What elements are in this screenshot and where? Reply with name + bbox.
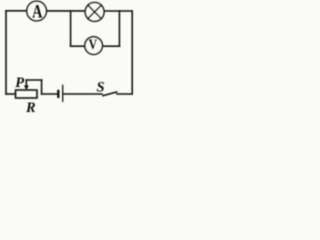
svg-text:R: R	[25, 100, 36, 116]
lamp X1 circle	[85, 3, 104, 22]
wire voltmeter branch right vertical	[118, 11, 120, 46]
svg-text:S: S	[97, 80, 105, 96]
wire bottom-left stub	[6, 93, 16, 95]
voltmeter V1 circle	[85, 37, 103, 55]
resistor R (rheostat box)	[16, 90, 38, 98]
lamp X1 cross	[88, 5, 101, 18]
wire junction vertical (voltmeter branch left)	[70, 11, 72, 46]
svg-text:P: P	[15, 75, 24, 91]
wire top right	[104, 10, 132, 12]
battery positive plate (long thin)	[62, 85, 64, 101]
wire slider branch vertical	[41, 80, 43, 94]
wire slider branch horizontal	[26, 79, 41, 81]
wire voltmeter right	[102, 45, 119, 47]
svg-text:V: V	[89, 36, 98, 53]
wire bottom to battery	[42, 93, 58, 95]
battery negative plate (short thick)	[57, 91, 59, 97]
wire top middle	[46, 10, 85, 12]
wire battery to switch	[63, 93, 102, 95]
wire voltmeter left	[71, 45, 85, 47]
switch S lever	[103, 92, 117, 96]
wire right vertical	[131, 11, 133, 94]
ammeter A1 circle	[27, 1, 47, 21]
wire switch to corner	[117, 93, 132, 95]
svg-text:A: A	[32, 0, 42, 21]
rheostat slider arrow P	[25, 80, 27, 87]
wire left vertical	[5, 11, 7, 94]
wire top left	[6, 10, 27, 12]
